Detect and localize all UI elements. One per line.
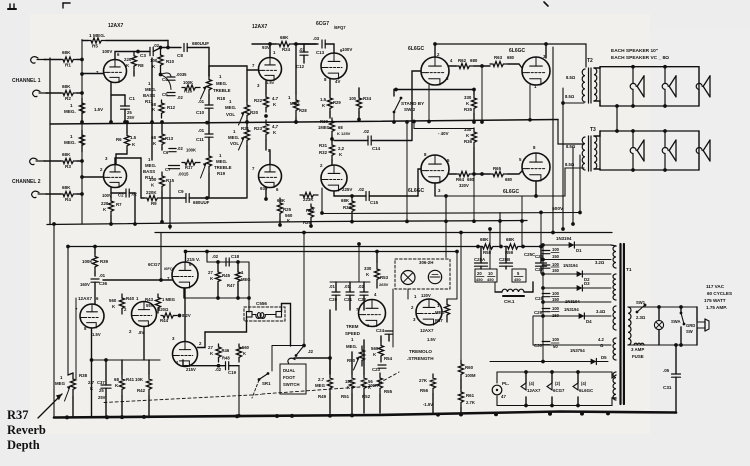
scan mark top-center xyxy=(544,2,548,6)
capacitor C22 .02 xyxy=(360,291,368,293)
capacitor C4 xyxy=(167,76,175,78)
resistor R22 4.7K xyxy=(265,81,267,94)
wire trem bottom to bus xyxy=(329,394,331,413)
svg-text:VOL: VOL xyxy=(226,112,235,117)
svg-text:R4: R4 xyxy=(65,197,71,202)
svg-text:3.4Ω: 3.4Ω xyxy=(596,309,606,314)
wire T2 secondary to speakers xyxy=(594,67,600,68)
input jack J1b xyxy=(33,90,40,97)
capacitor C18 .02 xyxy=(225,258,227,266)
svg-text:R56: R56 xyxy=(420,388,429,393)
capacitor C26 100/150 xyxy=(542,250,550,252)
svg-text:SR1: SR1 xyxy=(262,381,271,386)
svg-text:150: 150 xyxy=(552,297,560,302)
svg-text:223K: 223K xyxy=(303,197,314,202)
triode V1a 12AX7 xyxy=(104,60,127,83)
svg-text:1N3194: 1N3194 xyxy=(556,236,572,241)
svg-text:6CG7: 6CG7 xyxy=(148,262,160,267)
svg-text:R5: R5 xyxy=(92,44,98,49)
svg-text:4,7: 4,7 xyxy=(272,124,279,129)
svg-text:100K: 100K xyxy=(186,148,196,153)
resistor R34 100 ohm xyxy=(356,96,361,112)
svg-text:330: 330 xyxy=(464,127,472,132)
svg-text:D4: D4 xyxy=(586,319,592,324)
wire feeder x446 up xyxy=(445,196,447,221)
svg-text:25V: 25V xyxy=(127,115,135,120)
svg-text:100: 100 xyxy=(552,262,560,267)
svg-text:.01: .01 xyxy=(329,284,335,289)
svg-text:BASS: BASS xyxy=(143,169,155,174)
svg-text:680: 680 xyxy=(470,58,478,63)
svg-text:R64: R64 xyxy=(456,177,465,182)
svg-text:20: 20 xyxy=(477,271,482,276)
wire feeder x490 xyxy=(489,229,491,269)
svg-text:25V: 25V xyxy=(98,395,106,400)
capacitor C10 .01 xyxy=(208,95,210,105)
svg-text:27K: 27K xyxy=(419,378,428,383)
svg-text:450: 450 xyxy=(514,277,521,282)
svg-text:.02: .02 xyxy=(363,129,370,134)
svg-text:C1: C1 xyxy=(129,96,135,101)
resistor R15 100K xyxy=(159,172,164,192)
svg-text:1.5V: 1.5V xyxy=(266,80,275,85)
wire C4 C5 loop xyxy=(161,73,172,90)
resistor R27 223K xyxy=(300,192,318,197)
capacitor C14 .02 to upper grids xyxy=(367,136,369,145)
resistor R16 100K xyxy=(182,85,200,90)
speaker row 1 rails xyxy=(600,66,699,68)
capacitor C12 .01 xyxy=(294,42,298,46)
potentiometer R20 1 MEG volume xyxy=(244,101,249,121)
svg-text:680UUF: 680UUF xyxy=(192,41,209,46)
svg-text:265V: 265V xyxy=(379,282,389,287)
svg-text:R25: R25 xyxy=(283,207,292,212)
wire feeder x407 xyxy=(406,122,408,221)
svg-text:R8: R8 xyxy=(138,63,144,68)
capacitor C25B xyxy=(505,247,507,264)
svg-text:4.7: 4.7 xyxy=(272,96,279,101)
svg-text:MEG.: MEG. xyxy=(145,87,156,92)
svg-text:10: 10 xyxy=(488,271,493,276)
capacitor C1 cathode bypass xyxy=(111,94,125,96)
wire rail E-F drop x500 xyxy=(499,213,501,247)
resistor R52 56K xyxy=(361,374,366,394)
wire V2a grid xyxy=(247,69,259,71)
wire V2b cathode xyxy=(265,188,267,199)
capacitor C37 25uF xyxy=(105,360,107,385)
resistor R8 220K plate xyxy=(131,52,136,73)
svg-text:SWITCH: SWITCH xyxy=(283,382,300,387)
svg-text:2.7K: 2.7K xyxy=(466,400,475,405)
resistor R33 68K xyxy=(349,198,354,216)
svg-text:C19: C19 xyxy=(228,370,237,375)
svg-text:/6FQ7: /6FQ7 xyxy=(334,25,346,30)
svg-text:8.5Ω: 8.5Ω xyxy=(566,144,576,149)
svg-text:C2: C2 xyxy=(118,193,124,198)
heater load 6L6GC group xyxy=(577,372,579,383)
resistor R39 100K xyxy=(94,247,96,254)
svg-text:C24: C24 xyxy=(376,328,385,333)
svg-text:CHANNEL 1: CHANNEL 1 xyxy=(12,78,41,84)
input jack J1 channel 1 xyxy=(31,57,38,64)
svg-text:R12: R12 xyxy=(167,105,176,110)
svg-text:.0035: .0035 xyxy=(176,72,187,77)
wire feeder x474 down xyxy=(473,174,475,221)
resistor R35 330K xyxy=(471,94,476,114)
svg-text:R34: R34 xyxy=(363,96,372,101)
svg-text:GRD: GRD xyxy=(686,323,695,328)
svg-text:D5: D5 xyxy=(601,355,607,360)
wire trem oscillator columns xyxy=(335,282,337,292)
resistor R1 68K xyxy=(44,59,61,61)
resistor R44 820 ohm xyxy=(161,313,177,318)
svg-text:8.5Ω: 8.5Ω xyxy=(565,94,575,99)
switch SW ground xyxy=(679,305,683,309)
svg-text:R7: R7 xyxy=(116,202,122,207)
wire speaker rows connector xyxy=(616,106,618,131)
svg-text:SW1: SW1 xyxy=(636,300,646,305)
svg-text:(4): (4) xyxy=(529,381,535,386)
svg-text:R32: R32 xyxy=(319,150,328,155)
capacitor C20 .01 xyxy=(332,291,340,293)
pentode V4 6L6GC upper left xyxy=(421,57,449,85)
svg-text:100: 100 xyxy=(552,291,560,296)
svg-text:C7: C7 xyxy=(165,167,171,172)
svg-text:C29: C29 xyxy=(534,310,543,315)
rectifier row 5 xyxy=(533,315,611,317)
fuse 3 amp xyxy=(634,343,644,345)
svg-text:MEG: MEG xyxy=(290,101,300,106)
wire V3a plate xyxy=(333,44,335,53)
capacitor C15 .02 to lower grids xyxy=(365,192,367,201)
svg-text:C18: C18 xyxy=(231,254,240,259)
svg-text:MEG.: MEG. xyxy=(228,135,239,140)
svg-text:TREBLE: TREBLE xyxy=(213,88,231,93)
svg-text:680: 680 xyxy=(507,55,515,60)
wire primary loop bottom xyxy=(628,344,675,346)
wire V9b grid from tank xyxy=(198,332,206,348)
svg-text:1.5V: 1.5V xyxy=(94,107,103,112)
svg-text:100V: 100V xyxy=(102,193,112,198)
resistor R4 68K xyxy=(46,193,61,195)
svg-text:330: 330 xyxy=(464,95,472,100)
svg-text:55V: 55V xyxy=(146,303,154,308)
svg-text:68K: 68K xyxy=(62,84,71,89)
svg-text:MEG: MEG xyxy=(55,381,66,386)
diode D3 xyxy=(543,287,611,289)
resistor R41 68K xyxy=(119,374,124,396)
resistor R17 100K xyxy=(182,160,200,165)
resistor R45 27K xyxy=(217,262,219,271)
resistor R58 68K xyxy=(478,244,499,249)
svg-text:K 125V: K 125V xyxy=(337,131,351,136)
svg-text:SWA: SWA xyxy=(671,319,681,324)
resistor R59 68K xyxy=(504,244,523,249)
svg-text:PL.: PL. xyxy=(502,381,509,386)
svg-text:R57: R57 xyxy=(435,318,443,323)
svg-text:2,2: 2,2 xyxy=(338,146,345,151)
potentiometer R38 1 MEG reverb depth xyxy=(70,373,75,397)
svg-text:1: 1 xyxy=(70,134,73,139)
wire bottom ground bus xyxy=(54,412,676,418)
lamp-LDR module 306-2H xyxy=(395,259,450,289)
wire feeder x461 R60 R61 xyxy=(460,233,462,361)
svg-text:R23: R23 xyxy=(254,126,263,131)
svg-text:1 MEG: 1 MEG xyxy=(162,297,175,302)
svg-text:R40: R40 xyxy=(126,296,135,301)
svg-text:150: 150 xyxy=(552,268,560,273)
svg-text:100: 100 xyxy=(552,306,560,311)
capacitor C31 .05 ground xyxy=(675,345,677,374)
choke CH.1 xyxy=(502,289,524,292)
svg-text:100: 100 xyxy=(552,337,560,342)
svg-text:1N3194: 1N3194 xyxy=(563,263,578,268)
svg-text:R18: R18 xyxy=(217,96,226,101)
svg-text:T1: T1 xyxy=(626,267,632,273)
svg-text:.0015: .0015 xyxy=(178,172,189,177)
svg-text:C23: C23 xyxy=(372,367,381,372)
svg-text:.05: .05 xyxy=(663,368,670,373)
svg-text:R49: R49 xyxy=(318,394,327,399)
heater load 12AX7 group xyxy=(525,372,527,383)
svg-text:C556: C556 xyxy=(256,301,267,306)
resistor R64 680 screen lower xyxy=(449,173,456,175)
svg-text:C25A: C25A xyxy=(474,257,486,262)
resistor R23 4.7K xyxy=(263,120,268,140)
svg-text:R47: R47 xyxy=(227,283,235,288)
svg-text:.02: .02 xyxy=(153,43,160,48)
wire B+ vertical 4 xyxy=(579,155,581,213)
svg-text:R16: R16 xyxy=(184,89,193,94)
svg-text:D3: D3 xyxy=(584,281,590,286)
svg-text:R10: R10 xyxy=(166,59,175,64)
svg-text:4V: 4V xyxy=(335,79,340,84)
wire R5 line to treble line xyxy=(167,41,169,48)
svg-text:R63: R63 xyxy=(494,55,503,60)
svg-text:306-2H: 306-2H xyxy=(419,260,433,265)
bias row xyxy=(533,344,611,346)
resistor R42 10K xyxy=(146,374,151,396)
wire plate node to tone stack xyxy=(151,58,153,122)
wire bus to screens xyxy=(481,66,483,122)
svg-text:68K: 68K xyxy=(506,237,515,242)
arrow R37 callout xyxy=(38,394,62,418)
svg-text:560: 560 xyxy=(371,346,379,351)
wire V9 internal xyxy=(184,288,186,342)
wire primary loop top xyxy=(628,306,697,308)
svg-text:R48: R48 xyxy=(222,356,230,361)
svg-text:R19: R19 xyxy=(217,171,226,176)
resistor R25 560K xyxy=(277,198,282,220)
svg-text:C28: C28 xyxy=(535,296,544,301)
wire rail D 246 with R58 R59 xyxy=(68,246,478,248)
wire V5 plate to top rail xyxy=(545,44,547,58)
svg-text:R41: R41 xyxy=(126,377,135,382)
svg-text:CH.1: CH.1 xyxy=(504,299,515,304)
svg-text:R6: R6 xyxy=(116,137,122,142)
svg-text:Reverb: Reverb xyxy=(7,423,46,437)
svg-text:3.2Ω: 3.2Ω xyxy=(595,260,605,265)
svg-text:320V: 320V xyxy=(459,183,469,188)
wire tank output xyxy=(282,304,291,347)
svg-text:C31: C31 xyxy=(663,385,672,390)
svg-text:T2: T2 xyxy=(587,58,593,64)
wire grid junction column xyxy=(81,40,83,225)
svg-text:1.75 AMP.: 1.75 AMP. xyxy=(706,305,727,310)
wire R48 column to bus xyxy=(238,366,240,416)
potentiometer R19 1 MEG treble xyxy=(206,150,211,174)
resistor R48 560K xyxy=(236,344,241,362)
svg-text:680UUF: 680UUF xyxy=(193,200,210,205)
svg-text:TREM: TREM xyxy=(346,324,359,329)
pentode V7 6L6GC lower right xyxy=(522,153,550,181)
svg-text:MEG.: MEG. xyxy=(145,163,156,168)
resistor R7 220K xyxy=(108,198,113,216)
svg-text:.02: .02 xyxy=(177,146,183,151)
svg-text:60 CYCLES: 60 CYCLES xyxy=(707,291,732,296)
svg-text:68K: 68K xyxy=(62,50,71,55)
wire B+ vertical 2 xyxy=(562,88,564,229)
svg-text:C10: C10 xyxy=(196,110,205,115)
capacitor C5 xyxy=(167,92,175,94)
capacitor C24 xyxy=(385,330,393,332)
resistor R40 560K xyxy=(119,294,124,314)
svg-text:-1.5V: -1.5V xyxy=(423,402,433,407)
capacitor C23 xyxy=(378,364,386,366)
svg-text:(4): (4) xyxy=(581,381,587,386)
svg-text:C14: C14 xyxy=(372,146,381,151)
wire feeder x446 xyxy=(445,220,447,258)
resistor R60 100M xyxy=(458,360,463,380)
svg-text:R61: R61 xyxy=(466,393,475,398)
filter cap can 20-10 xyxy=(475,269,497,282)
rectifier row 1 xyxy=(543,244,611,246)
triode V3b 6CG7 xyxy=(321,165,347,191)
scan mark top-left xyxy=(8,8,16,10)
wire V1b grid xyxy=(82,176,104,178)
svg-text:68: 68 xyxy=(114,377,119,382)
wire rail E 213 xyxy=(322,213,580,214)
svg-text:R37: R37 xyxy=(7,408,29,422)
wire feeder x541 up xyxy=(540,212,542,246)
svg-text:4.2: 4.2 xyxy=(598,337,604,342)
svg-text:68K: 68K xyxy=(341,198,350,203)
svg-text:.STRENGTH: .STRENGTH xyxy=(407,356,434,361)
svg-text:K: K xyxy=(368,385,371,390)
svg-text:R65: R65 xyxy=(493,166,502,171)
svg-text:100: 100 xyxy=(150,58,158,63)
svg-text:1N3754: 1N3754 xyxy=(570,348,585,353)
wire V4 cathode to bus xyxy=(428,85,430,122)
wire feeder x170 xyxy=(169,182,171,229)
svg-text:MEG.: MEG. xyxy=(216,81,227,86)
svg-text:R55: R55 xyxy=(384,389,393,394)
wire B+ vertical 1 xyxy=(552,47,554,233)
capacitor C25A xyxy=(480,247,482,264)
svg-text:1MEG: 1MEG xyxy=(318,125,330,130)
svg-text:220: 220 xyxy=(124,57,132,62)
svg-text:47: 47 xyxy=(501,394,506,399)
svg-text:.01: .01 xyxy=(99,273,106,278)
pentode V5 6L6GC upper right xyxy=(522,57,550,85)
pilot lamp PL 47 xyxy=(492,385,502,395)
svg-text:R9: R9 xyxy=(151,201,157,206)
wire feeder x522 xyxy=(521,196,523,247)
svg-text:- 40V: - 40V xyxy=(438,131,449,136)
svg-text:6L6GC: 6L6GC xyxy=(509,48,526,54)
svg-text:8.5Ω: 8.5Ω xyxy=(566,75,576,80)
svg-text:2.3Ω: 2.3Ω xyxy=(636,315,646,320)
svg-text:MEG.: MEG. xyxy=(346,344,357,349)
triode V10a 12AX7 tremolo xyxy=(359,300,386,327)
triode V2a 12AX7 xyxy=(259,58,282,81)
resistor R62 680 screen xyxy=(449,65,456,67)
svg-text:225V: 225V xyxy=(342,187,352,192)
resistor R2 68K xyxy=(46,92,61,94)
triode V9a 6CG7 reverb driver xyxy=(172,262,198,288)
T1 heater winding xyxy=(613,372,616,400)
resistor grid leak 1 MEG channel 2 xyxy=(79,130,84,152)
svg-text:MEG.: MEG. xyxy=(64,140,76,145)
svg-text:1.5: 1.5 xyxy=(130,135,137,140)
svg-text:R45: R45 xyxy=(222,273,231,278)
dashed link footswitch to tremolo xyxy=(262,386,374,394)
svg-text:MEG: MEG xyxy=(435,310,445,315)
triode V10b 12AX7 xyxy=(416,299,442,325)
svg-text:1: 1 xyxy=(70,103,73,108)
resistor R26 xyxy=(308,204,313,222)
svg-text:6L6GC: 6L6GC xyxy=(579,388,594,393)
svg-text:C22: C22 xyxy=(358,297,367,302)
svg-text:SPEED: SPEED xyxy=(345,331,360,336)
wire grid feed upper 6L6 xyxy=(412,71,421,140)
svg-text:BASS: BASS xyxy=(143,93,155,98)
svg-text:.03: .03 xyxy=(313,36,320,41)
wire top rail to T2 xyxy=(435,44,586,67)
svg-text:R3: R3 xyxy=(65,164,71,169)
svg-text:.02: .02 xyxy=(131,192,137,197)
svg-text:C6: C6 xyxy=(163,150,169,155)
svg-text:12AX7: 12AX7 xyxy=(108,23,124,29)
svg-text:27: 27 xyxy=(208,270,213,275)
svg-text:160V: 160V xyxy=(80,282,90,287)
svg-text:.02: .02 xyxy=(212,254,219,259)
wire R19 bottom to V1b xyxy=(208,174,210,198)
svg-text:SW: SW xyxy=(686,329,693,334)
wire tank drive xyxy=(248,262,250,312)
svg-text:450: 450 xyxy=(476,277,483,282)
resistor R63 680 screen xyxy=(490,61,508,66)
svg-text:330: 330 xyxy=(364,266,372,271)
svg-text:R51: R51 xyxy=(341,394,350,399)
tank coil xyxy=(252,313,276,319)
heater circuit box xyxy=(497,371,612,373)
dashed link SR to reverb xyxy=(104,395,261,403)
potentiometer R50 trem speed 1 MEG xyxy=(359,346,364,366)
svg-text:R28: R28 xyxy=(299,108,307,113)
svg-text:EACH SPEAKER VC _ 8Ω: EACH SPEAKER VC _ 8Ω xyxy=(611,55,669,61)
svg-text:2.7: 2.7 xyxy=(318,377,325,382)
wire jack ground bus xyxy=(49,58,51,224)
svg-text:(2): (2) xyxy=(555,381,561,386)
svg-text:MEG.: MEG. xyxy=(216,159,227,164)
svg-text:Depth: Depth xyxy=(7,438,40,452)
svg-text:C3: C3 xyxy=(140,53,146,58)
svg-text:MEG: MEG xyxy=(241,277,251,282)
svg-text:R35: R35 xyxy=(464,107,473,112)
triode V8a 12AX7 reverb recovery xyxy=(80,304,104,328)
svg-text:R39: R39 xyxy=(100,259,109,264)
